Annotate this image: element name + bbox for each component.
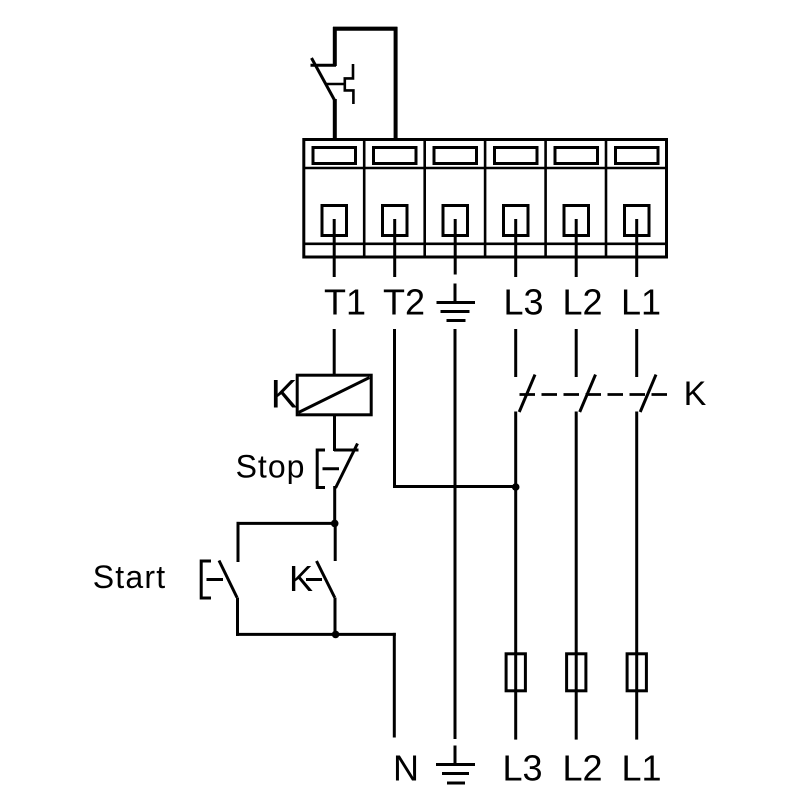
svg-text:Stop: Stop — [236, 449, 306, 485]
wire: below overload contact to terminal T1 — [333, 99, 337, 140]
terminal 6 pin — [635, 219, 638, 277]
K aux contact: moving blade (NO) — [317, 561, 335, 598]
svg-text:L1: L1 — [621, 748, 661, 789]
svg-text:L1: L1 — [621, 282, 661, 323]
terminal 2 pin — [393, 219, 396, 277]
wire: top loop right riser down to terminal T2 — [394, 27, 398, 140]
wire: bottom rail — [236, 633, 396, 636]
contactor pole 3 (L1): blade — [640, 375, 656, 412]
svg-text:K: K — [271, 373, 298, 417]
terminal block X1: cell divider 1 — [363, 140, 366, 258]
svg-text:Start: Start — [93, 559, 167, 595]
wire: T2 elbow to L3 column — [395, 485, 516, 488]
contactor pole 1 (L3): lower wire — [514, 412, 517, 656]
coil K: diagonal — [299, 378, 370, 413]
wire: L1 below fuse — [635, 691, 638, 740]
terminal 4 clamp cage — [504, 206, 529, 236]
terminal block X1: cell divider 3 — [484, 140, 487, 258]
ground symbol (terminal 3, top) — [437, 284, 476, 321]
contactor pole 3 (L1): upper wire — [635, 329, 638, 377]
contactor pole 1 (L3): upper wire — [514, 329, 517, 377]
Stop button: actuator link — [323, 467, 340, 470]
Start button: moving blade (NO) — [219, 561, 237, 598]
terminal block X1: cell divider 4 — [544, 140, 547, 258]
terminal 3 clamp cage — [443, 206, 468, 236]
svg-text:T1: T1 — [324, 282, 366, 323]
svg-text:L2: L2 — [562, 748, 602, 789]
node B junction dot — [332, 631, 340, 639]
svg-text:L2: L2 — [562, 282, 602, 323]
wire: K aux contact to bottom rail — [334, 598, 337, 635]
terminal block X1: outer body — [304, 140, 667, 258]
Start button: actuator link — [207, 578, 224, 581]
svg-text:L3: L3 — [503, 282, 543, 323]
terminal 2 clamp cage — [383, 206, 408, 236]
fuse F3 (L2) — [567, 654, 586, 691]
terminal block X1: cell divider 5 — [605, 140, 608, 258]
terminal 1 pin — [333, 219, 336, 277]
node C junction dot on L3 wire — [512, 483, 520, 491]
wire: top loop left riser (T1 to overload contact) — [333, 27, 337, 66]
terminal 4 screw slot — [495, 148, 538, 164]
Stop button: moving blade (NC) — [336, 444, 358, 489]
fuse F3 (L2): element wire — [575, 654, 578, 691]
contactor pole 2 (L2): upper wire — [575, 329, 578, 377]
wire: L2 below fuse — [575, 691, 578, 740]
Start button: actuator bracket — [201, 561, 211, 598]
contactor pole 2 (L2): lower wire — [575, 412, 578, 656]
contactor K dashed linkage — [520, 393, 671, 396]
terminal 5 screw slot — [555, 148, 598, 164]
overload contact F1: moving blade — [312, 58, 336, 101]
terminal block X1: upper divider — [304, 167, 667, 170]
wire: Start branch left drop — [237, 522, 240, 562]
Stop button: fixed contact bar — [334, 449, 359, 452]
wire: T2 drop — [393, 329, 396, 488]
Stop button: actuator bracket — [317, 450, 325, 488]
fuse F2 (L3) — [506, 654, 525, 691]
terminal 5 clamp cage — [564, 206, 589, 236]
wire: Stop button to node A — [333, 486, 336, 523]
svg-text:L3: L3 — [502, 748, 542, 789]
terminal 4 pin — [514, 219, 517, 277]
terminal block X1: lower divider — [304, 243, 667, 246]
terminal 3 screw slot — [434, 148, 477, 164]
wire: Start button to bottom rail — [236, 598, 239, 636]
wire: top loop horizontal — [333, 27, 397, 31]
terminal block X1: cell divider 2 — [423, 140, 426, 258]
fuse F4 (L1) — [627, 654, 646, 691]
terminal 5 pin — [575, 219, 578, 277]
svg-text:T2: T2 — [383, 282, 425, 323]
fuse F4 (L1): element wire — [635, 654, 638, 691]
wire: coil K to Stop button — [333, 415, 336, 451]
svg-text:N: N — [393, 748, 419, 789]
K aux contact: link dash — [306, 578, 322, 581]
svg-text:K: K — [684, 375, 707, 413]
terminal 6 screw slot — [616, 148, 659, 164]
overload F1: thermal element hook — [345, 64, 354, 104]
contactor pole 3 (L1): lower wire — [635, 412, 638, 656]
wire: bottom rail drop to N — [393, 633, 396, 738]
ground symbol (bottom) — [436, 746, 475, 784]
terminal 6 clamp cage — [625, 206, 650, 236]
terminal 3 pin — [454, 219, 457, 275]
wire: ground column vertical — [454, 329, 457, 739]
wire: L3 below fuse — [514, 691, 517, 740]
coil K: rectangle — [297, 375, 371, 415]
terminal 1 clamp cage — [322, 206, 347, 236]
contactor pole 2 (L2): blade — [580, 375, 596, 412]
wire: T1 drop to coil K — [333, 329, 336, 376]
wire: node A down to K aux contact — [334, 523, 337, 561]
node A junction dot — [331, 520, 339, 528]
contactor pole 1 (L3): blade — [519, 375, 535, 412]
terminal 1 screw slot — [313, 148, 356, 164]
terminal 2 screw slot — [374, 148, 417, 164]
overload F1: trip linkage — [326, 83, 346, 86]
overload contact F1: fixed contact bar — [311, 64, 337, 67]
fuse F2 (L3): element wire — [514, 654, 517, 691]
wire: node A horizontal to Start branch — [237, 522, 335, 525]
